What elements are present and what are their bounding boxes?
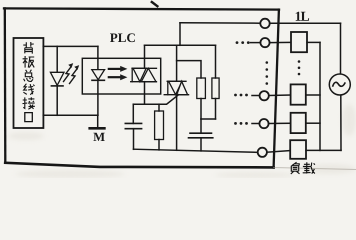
dots row terminal 4: [234, 122, 248, 125]
wire to terminal 1: [180, 22, 260, 24]
capacitor C1: [125, 123, 141, 128]
load L3: [291, 113, 306, 133]
label 背板总线接口 (hand-drawn hanzi, vertical): [23, 42, 35, 122]
ground M bar: [90, 127, 105, 130]
terminal T3: [260, 91, 269, 100]
phototriac symbol: [131, 68, 157, 81]
resistor R3 top wire: [158, 104, 160, 111]
wire riser to terminal 1L: [179, 23, 181, 46]
indicator LED D1 symbol: [50, 72, 64, 86]
stub wire terminal 4: [252, 123, 259, 125]
load return bus: [319, 42, 321, 150]
AC bus lower segment: [340, 95, 342, 150]
接: [23, 97, 35, 109]
wire load L2 to bus: [306, 94, 320, 96]
indicator LED D1 vertical wire: [56, 46, 58, 115]
wire joining R1 R2 bottoms: [201, 118, 216, 120]
resistor R2 top wire: [215, 45, 217, 78]
载: [303, 162, 315, 174]
terminal T5: [258, 148, 267, 157]
vertical dots between load1 and load2: [298, 60, 301, 75]
wire terminal 3 to load L2: [269, 94, 291, 97]
paper background: [0, 0, 356, 178]
triac Q1 symbol: [164, 81, 188, 94]
AC bus upper segment: [340, 23, 342, 74]
负: [291, 162, 300, 174]
口: [25, 113, 33, 122]
wire bottom from backplane box to ground node: [43, 114, 98, 116]
terminal T2: [260, 38, 269, 47]
phototriac bottom wire to gate node: [144, 82, 146, 105]
bottom output wire to terminal 5: [134, 149, 258, 152]
wire load L1 to bus: [307, 41, 320, 43]
ground M wire: [97, 115, 99, 127]
load L1: [291, 32, 307, 52]
optocoupler U1 box: [82, 58, 160, 94]
label M: [93, 133, 104, 141]
PLC module outline box: [4, 8, 279, 167]
opto LED cathode wire to ground node: [97, 80, 99, 115]
resistor R1: [197, 78, 206, 99]
phototriac top wire: [144, 45, 146, 68]
light coupling arrows: [109, 66, 128, 80]
capacitor C1 bottom wire: [133, 129, 135, 150]
wire terminal 1 to AC bus: [270, 22, 341, 24]
AC source: [329, 74, 350, 95]
capacitor C1 top wire: [132, 104, 134, 123]
wire top from backplane box to opto LED: [43, 45, 98, 47]
resistor R2 bottom wire: [215, 99, 217, 120]
load L2: [291, 84, 306, 104]
node A top wire: [145, 44, 216, 46]
dots row terminal 3: [234, 94, 248, 97]
triac Q1 gate lead: [133, 95, 178, 105]
wire terminal 2 to load L1: [270, 41, 291, 43]
bottom joint wire: [306, 149, 341, 151]
label 负载 (hand-drawn hanzi): [291, 162, 315, 174]
背: [23, 42, 34, 54]
wire terminal 5 to load L4: [267, 151, 291, 153]
terminal T4: [259, 119, 268, 128]
总: [24, 70, 34, 82]
load L4: [290, 140, 306, 159]
wire terminal 4 to load L3: [269, 122, 291, 124]
label 1L: [296, 12, 309, 21]
wire load L3 to bus: [306, 122, 320, 124]
resistor R2: [212, 78, 219, 99]
stray pen tick above module (scan artifact): [152, 2, 158, 6]
resistor R1 top branch wire: [177, 61, 201, 78]
线: [23, 84, 34, 95]
capacitor C2 top wire: [200, 119, 202, 133]
resistor R3: [155, 111, 164, 140]
triac Q1 MT2 wire: [176, 95, 178, 151]
opto LED symbol: [92, 70, 105, 81]
label PLC: [110, 33, 135, 42]
resistor R1 bottom wire: [200, 99, 202, 120]
stub wire terminal 3: [252, 95, 260, 97]
triac Q1 top wire: [176, 45, 178, 81]
backplane bus interface box 背板总线接口: [14, 38, 44, 128]
板: [23, 56, 35, 68]
dots row terminal 2: [236, 41, 250, 44]
opto LED anode wire: [97, 46, 99, 69]
capacitor C2 bottom wire: [200, 138, 202, 151]
stub wire terminal 2: [251, 42, 261, 44]
terminal T1: [260, 19, 269, 28]
capacitor C2: [189, 133, 213, 138]
indicator LED light arrows: [64, 63, 80, 83]
resistor R3 bottom wire: [158, 140, 160, 150]
vertical dots inside module: [266, 61, 269, 85]
faint scan crease line bottom right (decorative): [274, 168, 356, 170]
